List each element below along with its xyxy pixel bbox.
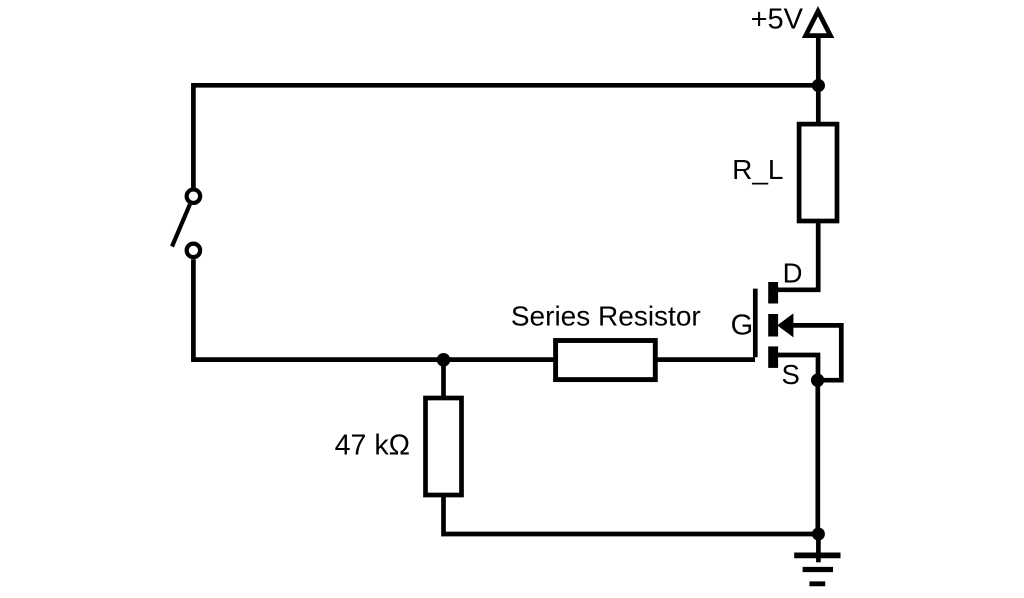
body channel pad [768, 314, 778, 337]
body arrow [777, 313, 793, 337]
resistor R_L [799, 124, 837, 221]
source channel pad [768, 346, 778, 368]
node S junction [811, 374, 824, 387]
wire bottom: 47k to ground node [444, 497, 819, 534]
transistor Q1 MOSFET [755, 282, 793, 368]
gate bar [753, 289, 758, 358]
svg-text:Series Resistor: Series Resistor [511, 301, 701, 332]
drain channel pad [768, 282, 778, 304]
node gate junction [437, 353, 451, 367]
wire switch bottom to gate [193, 259, 755, 359]
switch S1 [172, 189, 200, 257]
power +5V symbol [802, 6, 835, 38]
svg-text:R_L: R_L [732, 154, 783, 185]
node ground junction [812, 528, 825, 541]
svg-text:S: S [781, 359, 799, 390]
wire source to S node [778, 355, 818, 380]
svg-text:D: D [783, 257, 803, 288]
resistor 47 kOhm [426, 398, 462, 495]
svg-text:G: G [731, 310, 754, 342]
wire S node to ground [815, 380, 820, 534]
ground symbol [794, 534, 840, 584]
svg-text:47 kΩ: 47 kΩ [335, 430, 410, 462]
svg-text:+5V: +5V [751, 3, 804, 35]
wire top: +5V node to switch [193, 36, 818, 188]
resistor Series Resistor [556, 341, 656, 380]
wire 47k top stub [441, 360, 446, 398]
wire body return [791, 325, 841, 380]
wire R_L bottom to drain pad [778, 223, 818, 290]
node top junction [812, 79, 825, 92]
